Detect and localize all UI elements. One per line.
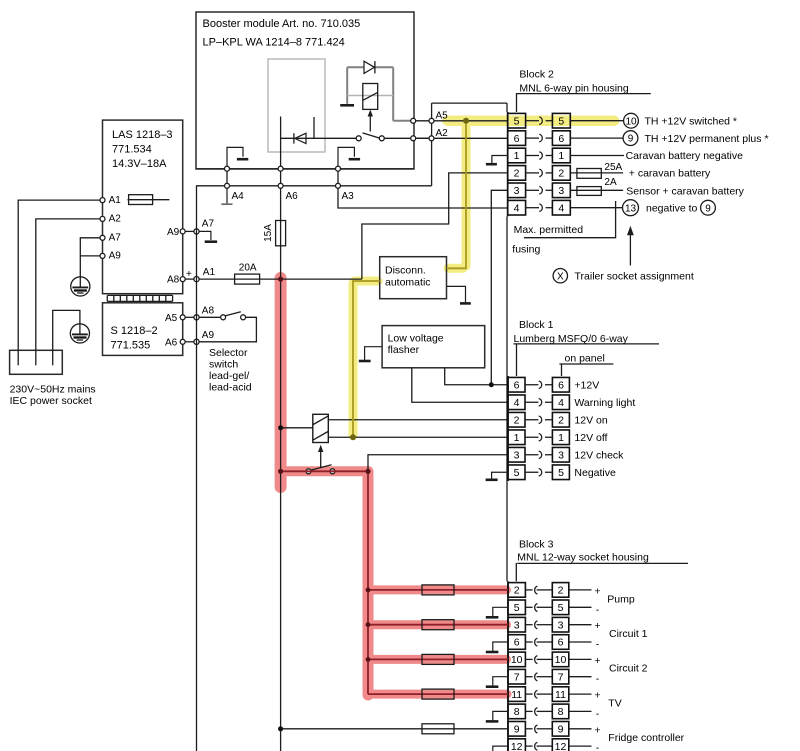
svg-text:10: 10 [555, 654, 567, 666]
svg-text:12: 12 [555, 741, 567, 751]
svg-text:Block 3: Block 3 [519, 538, 554, 550]
svg-text:fusing: fusing [512, 243, 540, 255]
svg-text:2: 2 [514, 168, 520, 180]
svg-text:Pump: Pump [607, 593, 635, 605]
fuse circuit2 [422, 654, 454, 664]
svg-text:5: 5 [514, 602, 520, 614]
fuse tv [422, 689, 454, 699]
svg-text:4: 4 [558, 397, 564, 409]
actuator link arrow K1 [368, 110, 373, 132]
ground at block3 pin5 [486, 607, 508, 617]
fuse circuit1 [422, 620, 454, 630]
Block 2 right column [552, 113, 570, 215]
svg-text:MNL 6-way pin housing: MNL 6-way pin housing [519, 82, 628, 94]
S pin A5 [165, 313, 185, 324]
LAS pin A9 [100, 251, 121, 262]
ground at node A7 [199, 231, 217, 241]
svg-text:1: 1 [558, 150, 564, 162]
svg-text:A1: A1 [109, 195, 122, 206]
Block 3 right column [552, 583, 569, 751]
svg-text:-: - [596, 604, 600, 616]
svg-text:X: X [557, 271, 564, 282]
junction dot fridge feed [278, 726, 283, 731]
svg-text:5: 5 [558, 467, 564, 479]
protective earth circle upper [71, 277, 90, 296]
svg-text:A1: A1 [203, 267, 216, 278]
wire fridge feed pin9 [281, 728, 508, 730]
earth wire from socket [53, 310, 80, 350]
block2 pin3 fuse 2A [570, 177, 744, 197]
ground at block3 pin8 [486, 711, 508, 721]
Block 1 right column [552, 377, 569, 479]
svg-text:8: 8 [514, 706, 520, 718]
svg-text:Circuit 2: Circuit 2 [609, 663, 648, 675]
wire A7/A9 to earth [80, 238, 100, 277]
max permitted fusing bracket [512, 201, 615, 255]
junction dot yellow at relay line [350, 434, 356, 440]
svg-text:1: 1 [514, 150, 520, 162]
svg-text:230V~50Hz mains: 230V~50Hz mains [10, 383, 96, 395]
switch S2 on battery line [306, 465, 335, 474]
red highlight marker [281, 278, 507, 695]
svg-text:9: 9 [705, 203, 711, 214]
svg-text:A7: A7 [109, 233, 122, 244]
svg-text:lead-acid: lead-acid [209, 382, 252, 394]
block2 pin1 caravan battery negative [570, 150, 743, 162]
svg-text:TH +12V switched *: TH +12V switched * [645, 115, 738, 127]
wire flasher to +12V row [445, 368, 508, 385]
node A4 [225, 183, 245, 202]
node A1 [186, 267, 215, 282]
node A7 [194, 218, 215, 234]
svg-text:MNL 12-way socket housing: MNL 12-way socket housing [517, 552, 649, 564]
Block 3 socket contacts [525, 586, 552, 750]
svg-text:S 1218–2: S 1218–2 [111, 325, 158, 337]
svg-text:Warning light: Warning light [574, 397, 635, 409]
svg-text:Trailer socket assignment: Trailer socket assignment [575, 271, 694, 283]
svg-text:5: 5 [558, 602, 564, 614]
svg-text:12V off: 12V off [574, 432, 607, 444]
svg-text:7: 7 [514, 671, 520, 683]
ground at block1 pin5 [486, 472, 508, 480]
svg-text:2: 2 [558, 168, 564, 180]
svg-text:11: 11 [555, 689, 566, 701]
diode D2 freewheel [364, 61, 375, 73]
LAS right pin A9 [167, 227, 185, 238]
Block 1 left column numbers [514, 379, 520, 479]
Block 3 right column numbers [555, 585, 567, 751]
junction dot relay tap [278, 425, 283, 430]
A5A2 box [432, 103, 507, 186]
svg-text:6: 6 [514, 133, 520, 145]
Block 1 title [514, 319, 660, 376]
Block 3 right side wires and labels [569, 590, 592, 746]
svg-text:2A: 2A [604, 177, 617, 188]
wire flasher to pin4 warning light [412, 368, 508, 402]
LAS pin A2 [100, 214, 121, 225]
svg-text:automatic: automatic [385, 277, 431, 289]
svg-text:+: + [594, 690, 600, 702]
svg-text:25A: 25A [604, 162, 622, 173]
svg-text:3: 3 [558, 619, 564, 631]
block2 pin4 to circle 13 [570, 200, 715, 216]
svg-text:A6: A6 [286, 191, 299, 202]
wire A2 line inside booster [281, 137, 430, 139]
svg-text:Sensor + caravan battery: Sensor + caravan battery [626, 185, 744, 197]
svg-text:3: 3 [514, 449, 520, 461]
wire A1 mains line [18, 200, 100, 350]
svg-text:A9: A9 [109, 251, 122, 262]
svg-text:5: 5 [514, 467, 520, 479]
block2 pin2 fuse 25A [570, 162, 711, 180]
svg-text:4: 4 [514, 397, 520, 409]
Block 2 right column numbers [558, 115, 564, 214]
relay K2 box [283, 414, 328, 442]
svg-text:4: 4 [514, 202, 520, 214]
arrow to circle 13 [627, 226, 634, 266]
ground at relay coil [340, 104, 354, 107]
svg-text:13: 13 [625, 203, 637, 214]
svg-text:Lumberg MSFQ/0 6-way: Lumberg MSFQ/0 6-way [514, 333, 629, 345]
svg-text:+ caravan battery: + caravan battery [629, 168, 711, 180]
LAS pin A1 [100, 195, 121, 206]
fuse pump [422, 585, 454, 595]
svg-text:9: 9 [628, 134, 634, 145]
booster module box [196, 12, 414, 169]
protective earth circle lower [70, 324, 89, 343]
svg-text:7: 7 [558, 671, 564, 683]
svg-text:3: 3 [558, 185, 564, 197]
relay coil K1 box [363, 84, 378, 110]
svg-text:Caravan battery negative: Caravan battery negative [626, 150, 743, 162]
svg-text:6: 6 [514, 637, 520, 649]
svg-text:on panel: on panel [565, 353, 605, 365]
svg-text:Max. permitted: Max. permitted [514, 224, 584, 236]
Block 2 left column [508, 113, 526, 215]
svg-text:A9: A9 [167, 227, 180, 238]
battery feed wire red core horizontal [281, 470, 368, 472]
fuse in LAS A1 [128, 195, 170, 205]
Block 1 left column [508, 377, 525, 479]
wire circuit2 feed pin10 [368, 658, 508, 660]
svg-text:A2: A2 [436, 128, 449, 139]
svg-text:A3: A3 [342, 191, 355, 202]
svg-text:15A: 15A [263, 224, 274, 242]
svg-text:3: 3 [514, 185, 520, 197]
svg-text:flasher: flasher [388, 344, 420, 356]
sensor wire vertical [491, 190, 507, 384]
node A9 [194, 330, 215, 345]
wire S A5 to node A8 [185, 316, 194, 318]
svg-text:771.535: 771.535 [111, 340, 151, 352]
Disconn. automatic box [380, 257, 447, 299]
terminal circles booster right edge [411, 118, 434, 141]
Low voltage flasher box [382, 326, 485, 368]
wire LAS A8 to node A1 [185, 278, 194, 280]
wire A3 to block2 pin4 [338, 188, 508, 208]
LAS pin A7 [100, 233, 121, 244]
LAS right pin A8 [167, 275, 185, 286]
wire pump feed pin2 [368, 589, 508, 591]
booster bottom edge [196, 168, 414, 170]
yellow wire core from junction to disconn [353, 121, 466, 437]
svg-text:A7: A7 [202, 218, 215, 229]
svg-text:-: - [596, 708, 600, 720]
mains label [10, 383, 96, 406]
Block 1 right column numbers [558, 379, 564, 479]
fuse fridge [422, 724, 454, 734]
block2 left column bus edge [507, 112, 509, 216]
Block 2 left column numbers [514, 115, 520, 214]
fuse 20A and A1 wire [199, 262, 362, 284]
Block 3 load labels [607, 593, 684, 744]
svg-text:2: 2 [514, 585, 520, 597]
svg-text:6: 6 [558, 637, 564, 649]
svg-text:Selector: Selector [209, 347, 248, 359]
svg-text:A2: A2 [109, 214, 122, 225]
svg-text:lead-gel/: lead-gel/ [209, 370, 249, 382]
relay coil K1 circuit (gray) [347, 67, 413, 121]
wire relay to 12V on [328, 419, 508, 421]
wire circuit1 feed pin3 [368, 624, 508, 626]
svg-text:Low voltage: Low voltage [388, 333, 444, 345]
block2 pin6 to circle 9 [570, 131, 768, 146]
S pin A6 [165, 337, 185, 348]
svg-text:TH +12V permanent plus *: TH +12V permanent plus * [645, 133, 769, 145]
yellow highlight marker [353, 121, 614, 436]
ground at block2 pin1 [486, 156, 508, 165]
junction dot red pump row [366, 588, 371, 593]
junction dot on +12V row [489, 382, 494, 387]
Block 3 title [516, 538, 688, 581]
svg-text:Circuit 1: Circuit 1 [609, 628, 648, 640]
node A8 [194, 306, 215, 320]
svg-text:A5: A5 [436, 111, 449, 122]
svg-text:-: - [596, 639, 600, 651]
connector bus vertical [506, 216, 508, 581]
junction dot A5 yellow [463, 118, 469, 124]
svg-text:4: 4 [558, 202, 564, 214]
junction circles on booster bottom edge [225, 166, 341, 171]
LAS 1218-3 box [103, 120, 183, 294]
diode D1 inside gray box [294, 133, 306, 143]
svg-text:3: 3 [558, 449, 564, 461]
svg-text:2: 2 [514, 414, 520, 426]
svg-text:8: 8 [558, 706, 564, 718]
terminal comb under LAS [107, 295, 172, 301]
fuse 15A [263, 221, 285, 246]
wire internal vertical A6 stub in gray box [280, 117, 282, 169]
svg-text:9: 9 [558, 724, 564, 736]
wire LAS A9 to node A7 [185, 230, 194, 232]
svg-text:1: 1 [514, 432, 520, 444]
ground at Disconn box [447, 286, 471, 303]
svg-text:9: 9 [514, 724, 520, 736]
junction dot red circuit1 row [366, 622, 371, 627]
svg-text:11: 11 [511, 689, 522, 701]
trailer socket assignment note [553, 269, 694, 283]
svg-text:A6: A6 [165, 337, 178, 348]
svg-text:A8: A8 [167, 275, 180, 286]
selector switch circuit [199, 312, 256, 342]
svg-text:12: 12 [511, 741, 523, 751]
svg-text:Booster module Art. no. 710.03: Booster module Art. no. 710.035 [203, 18, 361, 30]
svg-text:Block 2: Block 2 [519, 68, 554, 80]
wire internal stub right in gray box [313, 117, 315, 138]
svg-text:10: 10 [625, 116, 637, 127]
Block 2 title [516, 68, 651, 112]
svg-text:A9: A9 [202, 330, 215, 341]
node A3 [336, 183, 355, 202]
svg-text:2: 2 [558, 585, 564, 597]
block2 pin5 to circle 10 [570, 113, 737, 128]
wire relay to 12V off [328, 436, 508, 438]
svg-text:2: 2 [558, 414, 564, 426]
svg-text:1: 1 [558, 432, 564, 444]
svg-text:+: + [186, 269, 192, 280]
svg-text:IEC power socket: IEC power socket [10, 395, 92, 407]
svg-text:Negative: Negative [574, 467, 616, 479]
block3 left column bus edge [507, 581, 509, 751]
ground inside booster left [227, 147, 248, 166]
actuator link arrow K2 [318, 445, 323, 468]
svg-text:Fridge controller: Fridge controller [608, 732, 684, 744]
junction dot red circuit2 row [366, 657, 371, 662]
svg-text:TV: TV [608, 697, 621, 709]
svg-text:Block 1: Block 1 [519, 319, 554, 331]
svg-text:20A: 20A [239, 262, 257, 273]
svg-text:3: 3 [514, 619, 520, 631]
switch S1 in booster [356, 133, 384, 141]
Block 3 left column [508, 583, 525, 751]
block1 left column bus edge [507, 376, 509, 481]
svg-text:-: - [596, 673, 600, 685]
wires from booster to second row [227, 171, 338, 184]
junction dot red switch left [278, 469, 283, 474]
on panel label [559, 353, 613, 376]
svg-text:A4: A4 [232, 191, 245, 202]
svg-text:6: 6 [558, 133, 564, 145]
ground at A4 [221, 188, 232, 204]
ground at flasher [359, 347, 382, 361]
svg-text:Disconn.: Disconn. [385, 265, 426, 277]
ground inside booster right [338, 147, 360, 166]
left long vertical bus [196, 186, 198, 751]
svg-text:14.3V–18A: 14.3V–18A [112, 158, 167, 170]
Block 1 pin contacts [525, 381, 552, 476]
Block 3 polarity marks [594, 585, 600, 751]
wire A1 to block2 pin2 [362, 173, 508, 279]
Block 2 pin contacts [526, 117, 553, 212]
selector switch label [209, 347, 252, 394]
svg-text:6: 6 [514, 379, 520, 391]
svg-text:negative to: negative to [646, 202, 698, 214]
wire tv feed pin11 [368, 693, 508, 695]
booster inner module (gray box) [268, 59, 325, 152]
S 1218-2 box [103, 303, 183, 356]
wire A5 row to connector [413, 120, 508, 122]
ground at block3 pin6 [486, 642, 508, 652]
svg-text:12V check: 12V check [574, 449, 624, 461]
node A6 [278, 183, 298, 202]
svg-text:5: 5 [558, 115, 564, 127]
ground at block3 pin7 [486, 677, 508, 687]
junction dot red 20A [278, 277, 283, 282]
ground at block3 pin12 [493, 746, 508, 751]
Block 1 right labels [574, 379, 635, 479]
svg-text:LAS 1218–3: LAS 1218–3 [112, 129, 173, 141]
svg-text:+: + [594, 724, 600, 736]
wire S A6 to node A9 [185, 341, 194, 343]
battery feed wire red vertical [367, 471, 369, 694]
svg-text:6: 6 [558, 379, 564, 391]
IEC power socket box [10, 350, 63, 374]
wire A2 mains line [36, 219, 101, 350]
svg-text:+12V: +12V [574, 379, 599, 391]
svg-text:A5: A5 [165, 313, 178, 324]
svg-text:+: + [594, 620, 600, 632]
svg-text:10: 10 [511, 654, 523, 666]
svg-text:switch: switch [209, 358, 238, 370]
svg-text:+: + [594, 655, 600, 667]
svg-text:-: - [596, 742, 600, 751]
svg-text:12V on: 12V on [574, 414, 607, 426]
svg-text:+: + [594, 585, 600, 597]
svg-text:A8: A8 [202, 306, 215, 317]
svg-text:771.534: 771.534 [112, 143, 152, 155]
A6 long vertical bus [280, 188, 282, 751]
svg-text:LP–KPL WA 1214–8 771.424: LP–KPL WA 1214–8 771.424 [203, 37, 345, 49]
second row bus line [196, 185, 432, 187]
junction dot red switch right [365, 469, 370, 474]
svg-text:5: 5 [514, 115, 520, 127]
wire A2 row to connector [413, 137, 508, 139]
wire switch to 12V check [368, 455, 508, 472]
Block 3 left column numbers [511, 585, 523, 751]
